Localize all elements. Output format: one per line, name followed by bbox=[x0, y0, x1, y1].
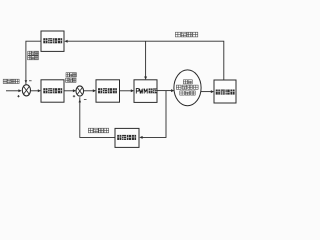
sign plus at junction1 bbox=[17, 95, 19, 97]
label glyph 电流-d bbox=[66, 73, 69, 77]
label glyph 电动机-d bbox=[185, 91, 190, 95]
block box current regulator 电流调节 bbox=[96, 80, 120, 102]
label glyph 无刷直流-s bbox=[182, 85, 187, 89]
label glyph 速度计算-d bbox=[48, 38, 52, 43]
label glyph 三相-x bbox=[188, 80, 192, 84]
label glyph 无刷直流-z bbox=[188, 85, 193, 89]
label glyph 无刷直流-w bbox=[176, 85, 181, 89]
wire position branch to PWM bbox=[145, 41, 147, 78]
wire junction1 to speed regulator bbox=[30, 90, 39, 92]
label glyph 电流反馈-l bbox=[94, 128, 99, 133]
label glyph 电流反馈-k bbox=[104, 128, 109, 133]
wire current tap from motor line bbox=[141, 91, 167, 138]
wire speed regulator to junction 2 bbox=[64, 90, 75, 92]
arrowhead into current regulator bbox=[93, 89, 96, 92]
block box position detector 位置检测 bbox=[214, 80, 236, 103]
label glyph 速度-1 bbox=[35, 51, 38, 55]
label glyph 速度调节-s bbox=[43, 88, 47, 93]
label glyph 电流反馈-d bbox=[88, 128, 93, 133]
sign minus at junction2 bbox=[84, 98, 87, 100]
label glyph 位置参数-s bbox=[193, 32, 198, 37]
label glyph 给定速度-d bbox=[7, 79, 11, 83]
label glyph 给定速度-d bbox=[16, 79, 20, 83]
arrowhead into junction 1 top bbox=[25, 80, 28, 83]
arrowhead into summing junction 1 bbox=[18, 89, 21, 92]
label glyph 参考-c bbox=[66, 78, 69, 82]
wire current feedback to junction 2 bbox=[80, 97, 115, 137]
label glyph 无刷直流-l bbox=[194, 85, 199, 89]
sign minus at junction1 bbox=[29, 80, 32, 82]
arrowhead into motor ellipse bbox=[171, 89, 174, 92]
wire position parameter top line bbox=[66, 41, 224, 80]
block box speed regulator 速度调节 bbox=[41, 80, 64, 102]
label glyph 给定速度-s bbox=[11, 79, 15, 83]
label glyph 电流调节-j bbox=[113, 88, 117, 93]
label glyph 电动机-d bbox=[180, 91, 185, 95]
motor ellipse 三相无刷直流电动机 bbox=[174, 70, 201, 106]
label glyph 电流反馈-f bbox=[99, 128, 104, 133]
arrowhead into junction 2 bottom bbox=[79, 100, 82, 103]
label glyph 速度调节-t bbox=[53, 88, 57, 93]
arrowhead into PWM control bbox=[131, 89, 134, 92]
arrowhead into position detector bbox=[211, 90, 214, 93]
label glyph 位置检测-z bbox=[221, 90, 225, 95]
block box current detector 电流检测 bbox=[115, 128, 139, 147]
label glyph 速度调节-d bbox=[48, 88, 52, 93]
label glyph 反馈-f bbox=[28, 56, 31, 60]
label glyph 参考-k bbox=[69, 78, 72, 82]
label glyph 电流检测-c bbox=[132, 135, 136, 140]
arrowhead into PWM top bbox=[144, 77, 147, 80]
label glyph 控制-k bbox=[149, 88, 153, 93]
wire given speed input bbox=[6, 90, 21, 92]
label glyph 电流调节-l bbox=[103, 88, 107, 93]
label glyph 电流调节-t bbox=[108, 88, 112, 93]
label glyph 参考-1 bbox=[73, 78, 76, 82]
label glyph 速度计算-s bbox=[58, 38, 62, 43]
label glyph 电流-l bbox=[70, 73, 73, 77]
wire speed feedback from speed-calc to junction 1 bbox=[26, 41, 41, 84]
label glyph 速度计算-s bbox=[43, 38, 47, 43]
label glyph 位置检测-j bbox=[226, 90, 230, 95]
arrowhead into current detector bbox=[139, 136, 142, 139]
block box speed calculation 速度计算 bbox=[41, 31, 64, 51]
wire current regulator to PWM bbox=[120, 90, 133, 92]
sign plus at junction2 bbox=[73, 95, 75, 97]
label glyph 速度-s bbox=[28, 51, 31, 55]
arrowhead into junction 2 bbox=[73, 89, 76, 92]
label glyph 位置检测-w bbox=[216, 90, 220, 95]
label glyph 电流调节-d bbox=[98, 88, 102, 93]
label glyph 电流检测-j bbox=[127, 135, 131, 140]
label glyph 反馈-1 bbox=[35, 56, 38, 60]
wire PWM to motor bbox=[157, 90, 173, 92]
wire motor to position detector bbox=[201, 91, 213, 93]
label glyph 电流检测-d bbox=[117, 135, 121, 140]
block box PWM control PWM控制 bbox=[134, 80, 157, 103]
label glyph 位置参数-w bbox=[175, 32, 180, 37]
summing junction 2 current error bbox=[76, 86, 84, 96]
summing junction 1 speed error bbox=[22, 85, 30, 96]
label glyph 位置参数-z bbox=[181, 32, 186, 37]
label glyph 控制-z bbox=[153, 88, 157, 93]
label glyph 速度-d bbox=[32, 51, 35, 55]
label glyph 速度调节-j bbox=[58, 88, 62, 93]
label glyph 速度计算-j bbox=[53, 38, 57, 43]
label glyph 反馈-k bbox=[31, 56, 34, 60]
arrowhead into speed regulator bbox=[38, 89, 41, 92]
label glyph 电流检测-l bbox=[122, 135, 126, 140]
label glyph 位置参数-c bbox=[187, 32, 192, 37]
arrowhead into speed calculation bbox=[64, 40, 67, 43]
label glyph 位置检测-c bbox=[230, 90, 234, 95]
label glyph 电流-1 bbox=[73, 73, 76, 77]
page background bbox=[0, 0, 240, 180]
label glyph 给定速度-g bbox=[3, 79, 7, 83]
label glyph 三相-s bbox=[183, 80, 187, 84]
label PWM letters bbox=[136, 89, 147, 94]
wire junction2 to current regulator bbox=[84, 90, 95, 92]
label glyph 电动机-j bbox=[191, 91, 196, 95]
